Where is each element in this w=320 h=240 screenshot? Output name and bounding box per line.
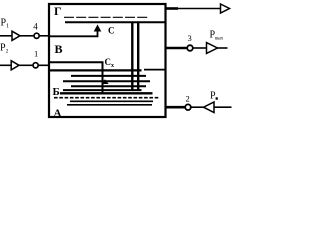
wire triangle to node 1: [19, 64, 32, 66]
open arrowhead: [221, 4, 230, 13]
node 3 circle: [187, 45, 193, 51]
movable plate (solid): [65, 21, 166, 23]
svg-text:P: P: [210, 91, 216, 102]
wire node 1 to box: [39, 64, 49, 66]
output wire to node 3: [165, 47, 187, 50]
input line P2: [0, 64, 11, 66]
top output wire: [167, 7, 179, 10]
rod double vertical: [131, 22, 133, 89]
plate line 2: [71, 75, 146, 77]
bottom double line upper: [70, 100, 153, 102]
svg-text:А: А: [54, 108, 62, 120]
wire triangle to node 4: [20, 35, 33, 37]
arrowhead of nozzle C: [94, 25, 102, 32]
plate line 1: [49, 69, 142, 71]
bottom double line lower: [67, 104, 152, 106]
svg-text:4: 4: [33, 22, 38, 32]
dashed bottom line: [54, 97, 160, 99]
svg-text:Г: Г: [54, 4, 62, 18]
plate line 3: [63, 80, 150, 82]
node 2 circle: [185, 104, 191, 110]
wire node 4 to box: [40, 35, 49, 37]
node 4 circle: [34, 33, 39, 38]
amplifier triangle P2: [11, 61, 19, 70]
svg-text:В: В: [55, 42, 63, 56]
plate line 4: [71, 85, 146, 87]
svg-text:3: 3: [188, 33, 192, 43]
input line P1: [0, 35, 12, 37]
small up arrow on electrode: [101, 79, 108, 84]
bottom wire to node 2: [165, 106, 185, 109]
membrane line: [60, 92, 153, 94]
right wall stub plate: [144, 69, 166, 71]
wire node 2 to amplifier: [192, 106, 204, 108]
wire node 3 to amplifier: [193, 47, 206, 49]
amplifier triangle P0 (points left): [204, 102, 215, 113]
node 1 circle: [33, 63, 38, 68]
output wire after amplifier: [218, 47, 228, 49]
svg-text:1: 1: [34, 49, 38, 59]
svg-text:2: 2: [186, 94, 190, 104]
device body box: [49, 4, 166, 117]
fixed plate (dashed): [64, 16, 148, 18]
svg-text:Б: Б: [53, 86, 60, 98]
input wire right edge: [214, 106, 232, 108]
port 4 lead with up arrow: [49, 28, 98, 37]
amplifier triangle P1: [12, 31, 20, 40]
plate line 5: [63, 89, 142, 91]
lead to Cx electrode: [49, 62, 103, 93]
svg-text:C: C: [108, 26, 115, 36]
amplifier triangle Pvyh: [207, 43, 218, 54]
